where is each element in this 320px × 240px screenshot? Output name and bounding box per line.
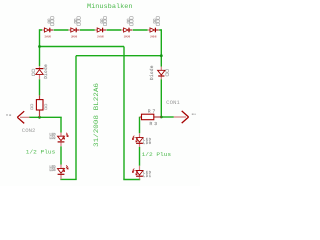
- svg-text:CON2: CON2: [22, 127, 36, 134]
- svg-text:LD1: LD1: [143, 175, 152, 179]
- svg-text:LD2: LD2: [49, 137, 55, 141]
- resistor R2 (left vertical): [36, 95, 43, 117]
- LED LD3 labels: [49, 166, 55, 173]
- pin name marks left: [6, 114, 11, 116]
- diode D5: [148, 28, 159, 33]
- svg-text:Diode: Diode: [44, 64, 49, 79]
- svg-text:31/2008 BL22A6: 31/2008 BL22A6: [93, 83, 100, 147]
- wire V5 x=139.5: [139, 117, 141, 166]
- resistor R3 (horizontal right): [140, 114, 162, 120]
- wire V2 x=124: [123, 47, 125, 180]
- pin arrow CON1 (right): [174, 111, 189, 123]
- junction node H3/right vertical: [160, 54, 163, 57]
- junction node H2/V1: [38, 45, 41, 48]
- LED LD3 (left chain lower): [58, 165, 69, 180]
- LED LD0 labels: [143, 139, 152, 147]
- svg-text:1N4148: 1N4148: [124, 34, 131, 38]
- diode D1 name label: [48, 17, 54, 26]
- wire H4 y=117.3: [29, 116, 62, 118]
- LED LD0 (right chain upper, arrows left): [132, 133, 143, 147]
- svg-text:LD0: LD0: [143, 142, 151, 146]
- diode D2: [68, 28, 79, 33]
- svg-text:LD3: LD3: [49, 169, 55, 173]
- junction node right R3/CON1: [160, 116, 163, 119]
- svg-text:Minusbalken: Minusbalken: [87, 3, 133, 10]
- LED LD2 labels: [49, 134, 55, 141]
- diode D1: [42, 28, 53, 33]
- junction node V1/H4: [38, 116, 41, 119]
- diode D8 (left, pointing up, cathode bar on top): [36, 66, 44, 79]
- svg-text:1N4148: 1N4148: [150, 34, 157, 38]
- svg-text:1N4148: 1N4148: [71, 34, 78, 38]
- diode D9 (right, pointing down, cathode bar below): [158, 67, 165, 80]
- wire H1 top bus y=30: [40, 29, 162, 31]
- diode D8 name label: [32, 69, 35, 76]
- wire right vertical x=161.3: [160, 29, 162, 117]
- diode D2 name label: [74, 17, 80, 26]
- LED LD2 (left chain upper): [58, 133, 69, 147]
- LED LD1 labels: [143, 172, 152, 180]
- diode D4: [121, 28, 132, 33]
- svg-text:1N4148: 1N4148: [97, 34, 104, 38]
- svg-text:1N4148: 1N4148: [45, 34, 52, 38]
- wire H5 y=179.4: [60, 178, 76, 180]
- pin name marks right: [192, 114, 196, 115]
- pin arrow CON2 (left): [17, 111, 29, 123]
- svg-text:1/2 Plus: 1/2 Plus: [142, 151, 172, 158]
- svg-text:CON1: CON1: [166, 99, 180, 106]
- wire stub CON1: [161, 116, 174, 118]
- wire V1 left x=39.5: [39, 29, 41, 95]
- diode D9 name label: [166, 69, 169, 76]
- diode D3: [95, 28, 106, 33]
- diode D3 name label: [101, 17, 107, 26]
- resistor R2 value label: [45, 104, 47, 109]
- wire H6 y=179.5: [123, 179, 140, 181]
- svg-text:Diode: Diode: [150, 65, 155, 80]
- wire V4 x=61: [60, 117, 62, 164]
- resistor R2 name label: [31, 104, 33, 109]
- svg-text:R3: R3: [150, 121, 158, 127]
- diode D4 name label: [127, 17, 133, 26]
- diode D5 name label: [154, 17, 160, 26]
- LED LD1 (right chain lower, arrows left): [132, 166, 143, 180]
- svg-text:1/2 Plus: 1/2 Plus: [26, 148, 56, 155]
- wire H2 y=46.5: [40, 46, 125, 48]
- wire H3 y=55.7: [76, 55, 161, 57]
- svg-text:R7: R7: [148, 108, 156, 114]
- wire V3 x=76: [75, 56, 77, 180]
